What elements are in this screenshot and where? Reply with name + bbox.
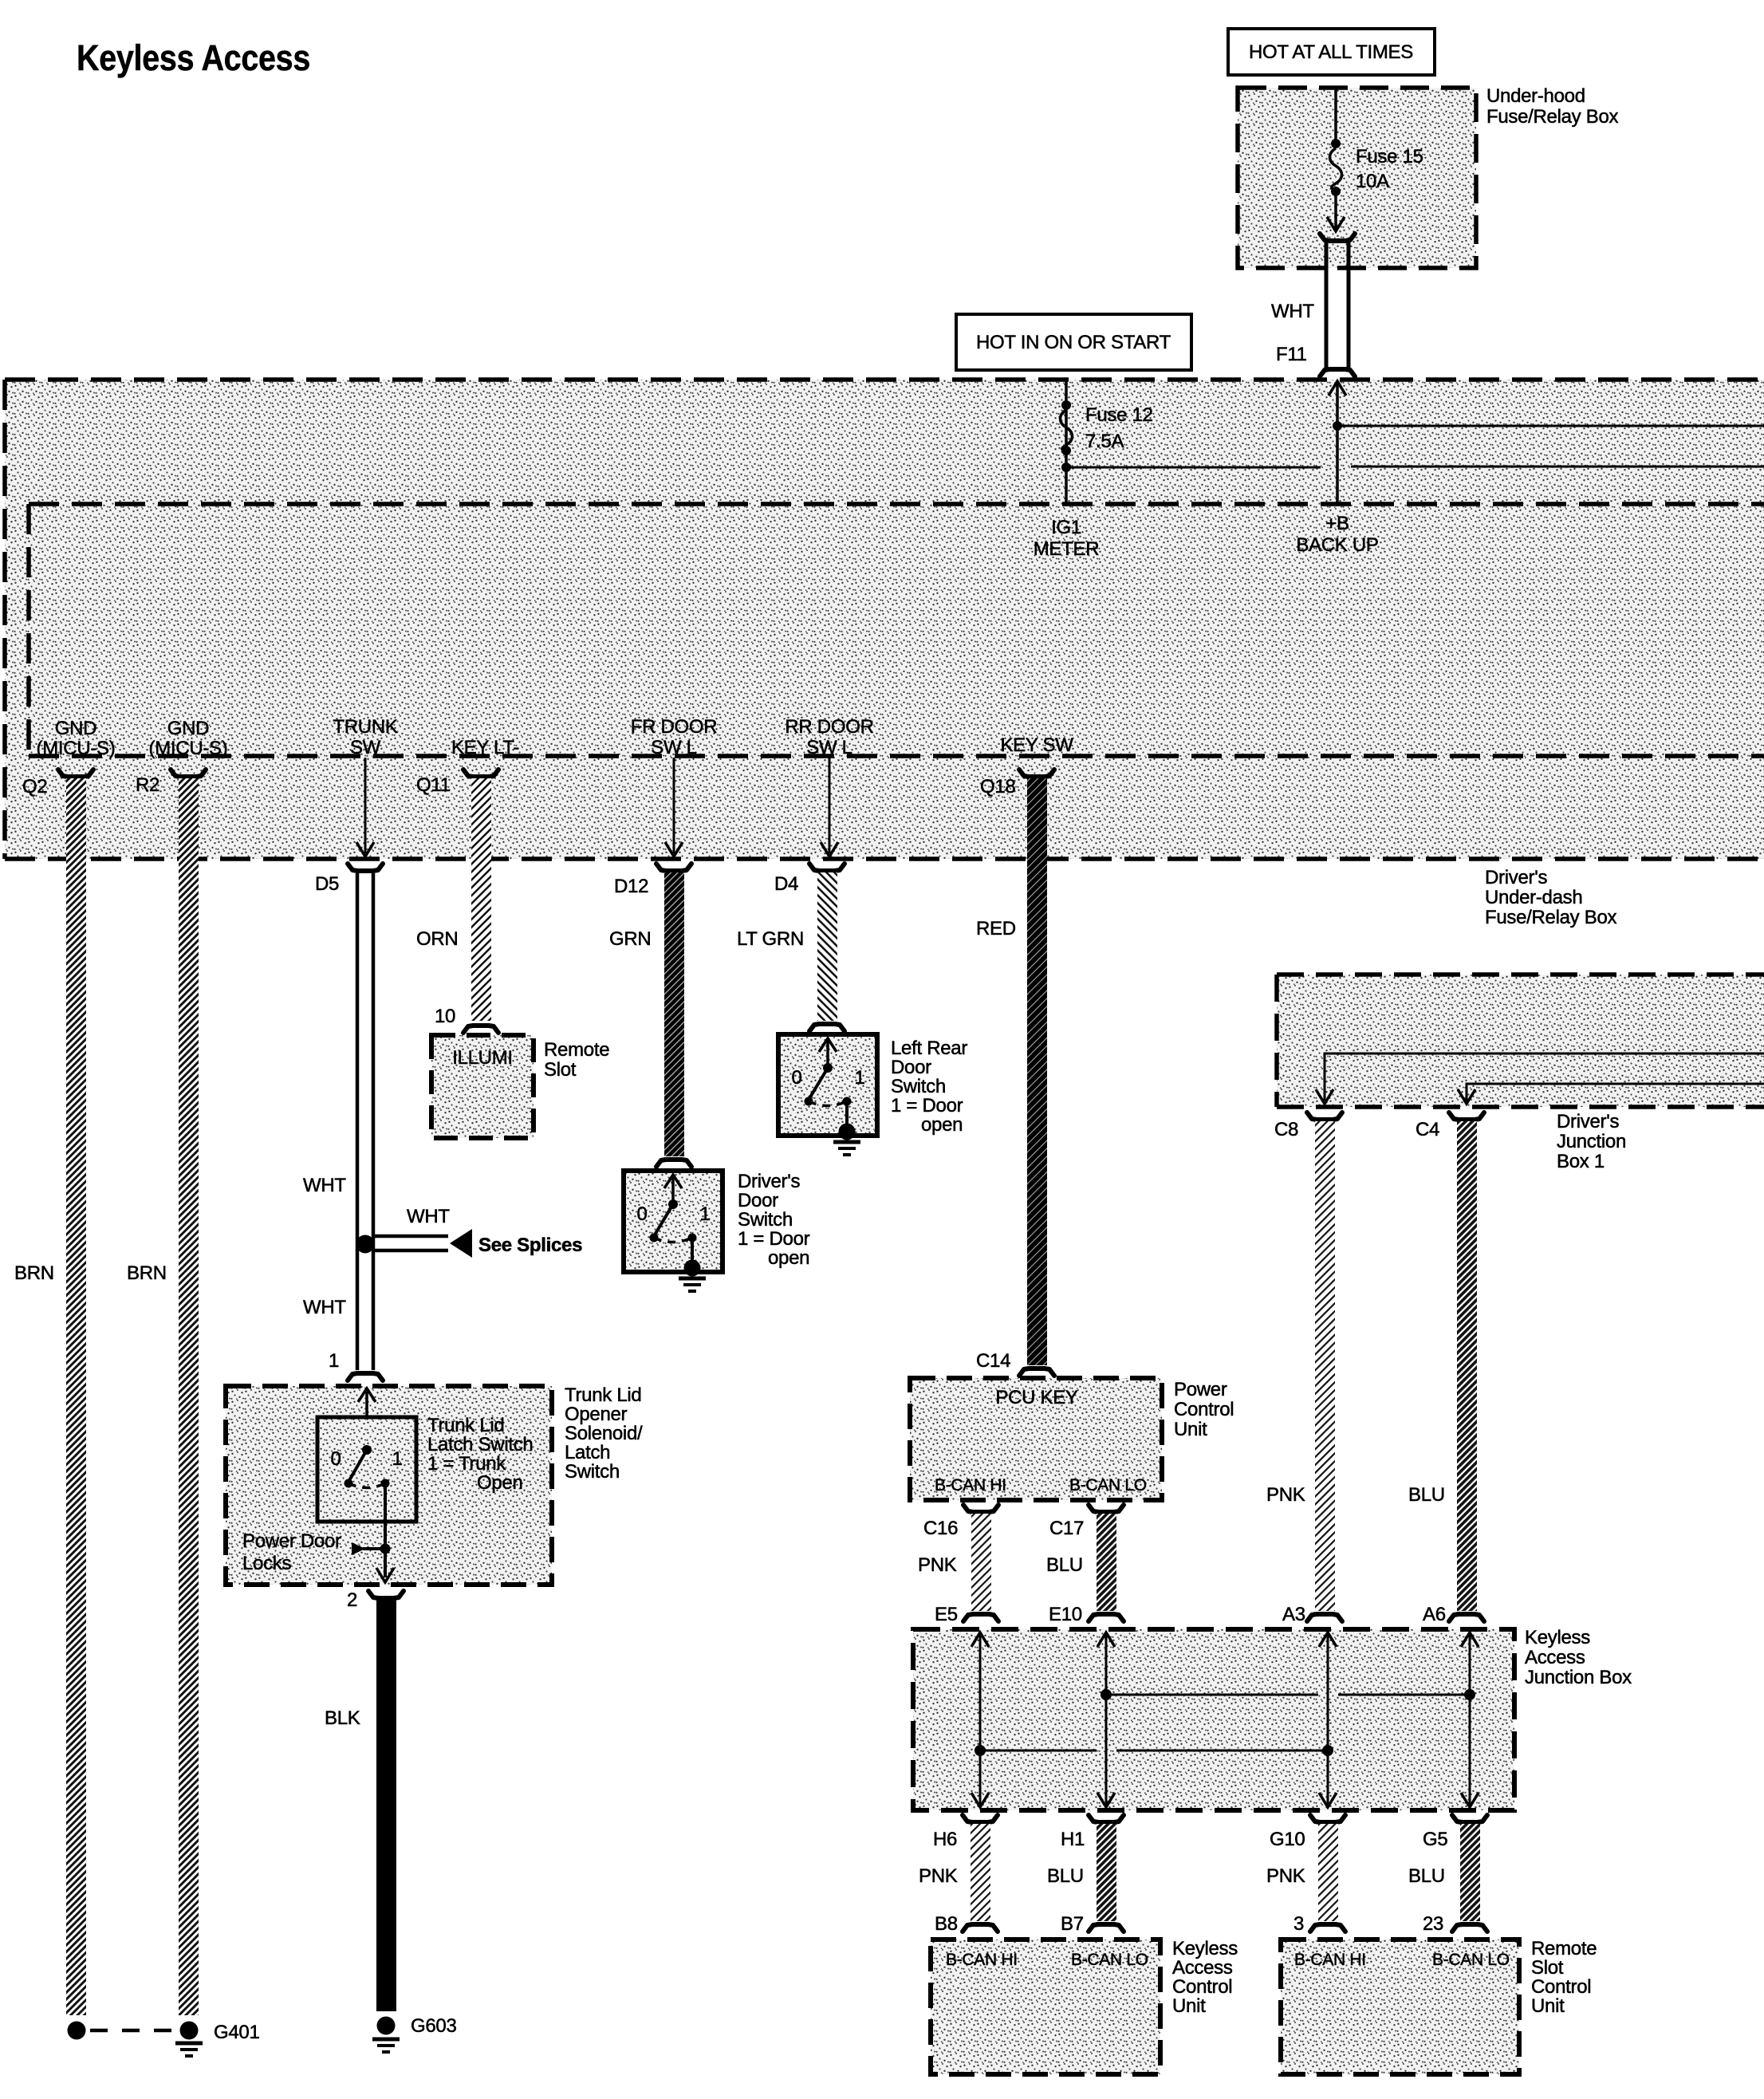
svg-text:RED: RED [976, 918, 1016, 939]
svg-text:WHT: WHT [303, 1175, 346, 1196]
svg-text:Fuse 12: Fuse 12 [1085, 404, 1153, 426]
svg-text:F11: F11 [1276, 344, 1307, 365]
svg-text:C14: C14 [976, 1350, 1010, 1372]
under-hood fuse/relay box [1238, 85, 1619, 268]
fuse 15 (10A) [1327, 88, 1423, 231]
svg-text:Fuse/Relay Box: Fuse/Relay Box [1486, 106, 1619, 128]
svg-text:Driver's: Driver's [1557, 1111, 1619, 1132]
svg-text:TRUNK: TRUNK [333, 716, 397, 738]
svg-text:1: 1 [392, 1448, 402, 1470]
svg-text:B-CAN LO: B-CAN LO [1432, 1951, 1510, 1969]
svg-text:BLK: BLK [325, 1707, 360, 1729]
svg-text:BLU: BLU [1047, 1865, 1084, 1887]
svg-text:Control: Control [1531, 1976, 1591, 1998]
junction box B-CAN HI tie (E5 to A3, hop at E10) [975, 1745, 1333, 1756]
remote slot box [431, 1035, 609, 1138]
svg-text:(MICU-S): (MICU-S) [37, 738, 116, 759]
svg-text:10A: 10A [1356, 171, 1389, 192]
connector D5 [315, 864, 383, 895]
svg-text:Q2: Q2 [22, 776, 47, 797]
svg-text:C17: C17 [1049, 1518, 1084, 1539]
svg-text:1: 1 [329, 1350, 339, 1372]
svg-text:(MICU-S): (MICU-S) [149, 738, 228, 759]
svg-text:B7: B7 [1061, 1913, 1084, 1935]
power door locks arrow [242, 1530, 394, 1582]
svg-text:B-CAN HI: B-CAN HI [946, 1951, 1018, 1969]
svg-text:Slot: Slot [544, 1059, 577, 1081]
connector C16 / wire PNK (PCU to E5) [918, 1505, 998, 1625]
svg-text:RR DOOR: RR DOOR [785, 716, 873, 738]
svg-text:Box 1: Box 1 [1557, 1151, 1605, 1172]
svg-text:0: 0 [330, 1448, 341, 1470]
connector C4 / wire BLU (to A6) [1408, 1113, 1484, 1625]
svg-text:E10: E10 [1049, 1604, 1082, 1625]
svg-text:HOT IN ON OR START: HOT IN ON OR START [976, 332, 1171, 353]
HOT AT ALL TIMES label box [1228, 29, 1435, 75]
power control unit (PCU) [910, 1378, 1234, 1500]
svg-text:Power: Power [1174, 1379, 1227, 1400]
HOT IN ON OR START label box [956, 314, 1191, 370]
svg-text:D4: D4 [774, 873, 798, 895]
svg-text:B8: B8 [935, 1913, 958, 1935]
svg-text:1: 1 [854, 1067, 864, 1089]
node GND (MICU-S) R2 [136, 718, 227, 796]
svg-text:1 = Trunk: 1 = Trunk [427, 1453, 506, 1475]
svg-text:Opener: Opener [565, 1404, 628, 1425]
svg-text:Control: Control [1174, 1399, 1234, 1420]
svg-text:Driver's: Driver's [738, 1171, 800, 1192]
svg-text:Remote: Remote [544, 1039, 609, 1061]
svg-text:PCU KEY: PCU KEY [995, 1387, 1078, 1408]
svg-text:Door: Door [738, 1190, 778, 1211]
wire inside junction box to C8 [1316, 1053, 1764, 1104]
svg-text:3: 3 [1293, 1913, 1304, 1935]
wire ORN (Q11 to remote slot pin 10) [416, 778, 498, 1033]
svg-text:Remote: Remote [1531, 1938, 1597, 1959]
node TRUNK SW [333, 716, 397, 857]
driver's junction box 1 [1277, 975, 1764, 1172]
svg-text:Under-dash: Under-dash [1485, 887, 1582, 908]
svg-text:Access: Access [1172, 1957, 1233, 1979]
svg-text:BACK UP: BACK UP [1296, 534, 1378, 556]
junction box B-CAN LO tie (E10 to A6, hop at A3) [1101, 1689, 1475, 1700]
node IG1 / METER [1034, 517, 1100, 560]
node KEY LT (Q11) [416, 737, 519, 796]
junction box bus E10-H1 [1097, 1632, 1115, 1807]
svg-text:23: 23 [1423, 1913, 1443, 1935]
svg-text:WHT: WHT [1271, 301, 1314, 322]
svg-text:C16: C16 [923, 1518, 958, 1539]
keyless access junction box [913, 1627, 1632, 1810]
svg-text:Slot: Slot [1531, 1957, 1564, 1979]
svg-text:Unit: Unit [1172, 1995, 1206, 2017]
svg-text:G10: G10 [1270, 1829, 1305, 1850]
svg-text:GND: GND [167, 718, 209, 739]
svg-text:Locks: Locks [242, 1553, 291, 1574]
connector H6 / wire PNK (to B8) [919, 1815, 998, 1935]
driver's under-dash fuse/relay box (outer) [5, 380, 1764, 928]
node KEY SW (Q18) [980, 734, 1073, 797]
svg-text:Keyless: Keyless [1525, 1627, 1590, 1648]
svg-text:SW L: SW L [806, 737, 852, 758]
svg-text:Q11: Q11 [416, 774, 451, 796]
svg-text:Switch: Switch [738, 1209, 793, 1231]
svg-text:Trunk Lid: Trunk Lid [565, 1384, 641, 1406]
svg-text:Q18: Q18 [980, 776, 1015, 797]
svg-text:0: 0 [791, 1067, 801, 1089]
svg-text:FR DOOR: FR DOOR [631, 716, 718, 738]
svg-text:D12: D12 [614, 876, 648, 897]
node GND (MICU-S) Q2 [22, 718, 115, 797]
svg-text:G401: G401 [214, 2022, 260, 2043]
wire BRN (R2 to G401) [127, 778, 199, 2015]
svg-text:Junction Box: Junction Box [1525, 1667, 1632, 1688]
svg-text:Driver's: Driver's [1485, 867, 1547, 888]
left rear door switch [778, 1034, 967, 1155]
svg-text:1 = Door: 1 = Door [891, 1095, 963, 1116]
svg-text:Trunk Lid: Trunk Lid [427, 1415, 504, 1436]
svg-text:B-CAN LO: B-CAN LO [1071, 1951, 1148, 1969]
remote slot control unit [1281, 1938, 1597, 2074]
svg-text:Latch Switch: Latch Switch [427, 1434, 533, 1455]
svg-text:IG1: IG1 [1051, 517, 1081, 538]
junction box bus A3-G10 [1319, 1632, 1337, 1807]
svg-text:C8: C8 [1274, 1119, 1298, 1140]
svg-text:Switch: Switch [891, 1076, 946, 1097]
node FR DOOR SW L [631, 716, 718, 857]
svg-text:KEY SW: KEY SW [1000, 734, 1073, 756]
svg-text:A3: A3 [1282, 1604, 1305, 1625]
svg-text:R2: R2 [136, 774, 159, 796]
svg-text:D5: D5 [315, 873, 339, 895]
trunk lid opener solenoid/latch switch box [226, 1384, 643, 1585]
svg-text:Latch: Latch [565, 1442, 610, 1463]
node +B / BACK UP [1296, 381, 1764, 556]
svg-text:Unit: Unit [1174, 1419, 1207, 1440]
svg-text:GND: GND [55, 718, 96, 739]
svg-text:B-CAN HI: B-CAN HI [1294, 1951, 1366, 1969]
svg-text:A6: A6 [1423, 1604, 1446, 1625]
wire RED (Q18 to PCU C14) [976, 778, 1054, 1376]
wire WHT (trunk sw, double line) [303, 873, 383, 1380]
svg-text:ORN: ORN [416, 928, 458, 950]
wire inside junction box to C4 [1458, 1084, 1764, 1104]
svg-text:H1: H1 [1061, 1829, 1085, 1850]
wire: fuse 12 output to right (IG1 feed) [1066, 467, 1321, 469]
svg-text:Under-hood: Under-hood [1486, 85, 1585, 107]
svg-text:+B: +B [1325, 513, 1349, 534]
keyless access control unit [931, 1938, 1238, 2074]
wire LT GRN (D4 to left rear door switch) [737, 872, 845, 1031]
svg-text:Junction: Junction [1557, 1131, 1626, 1152]
svg-text:BLU: BLU [1408, 1865, 1445, 1887]
svg-text:METER: METER [1034, 538, 1100, 560]
svg-text:B-CAN HI: B-CAN HI [935, 1476, 1006, 1495]
svg-text:G5: G5 [1423, 1829, 1447, 1850]
svg-text:SW L: SW L [651, 737, 696, 758]
svg-text:SW: SW [350, 737, 381, 758]
driver's door switch [624, 1171, 810, 1291]
svg-text:LT GRN: LT GRN [737, 928, 804, 950]
svg-text:E5: E5 [935, 1604, 958, 1625]
wire GRN (D12 to driver's door switch) [609, 872, 691, 1167]
wire BRN (Q2 to G401) [14, 778, 86, 2015]
svg-text:ILLUMI: ILLUMI [452, 1047, 513, 1069]
wire: continuation right of +B vertical (hop) [1351, 466, 1764, 468]
svg-text:PNK: PNK [919, 1865, 958, 1887]
svg-text:open: open [768, 1247, 809, 1269]
fuse 12 (7.5A) [1061, 380, 1153, 504]
svg-text:C4: C4 [1416, 1119, 1439, 1140]
connector C8 / wire PNK (to A3) [1266, 1113, 1342, 1625]
connector H1 / wire BLU (to B7) [1047, 1815, 1124, 1935]
junction box bus A6-G5 [1461, 1632, 1479, 1807]
svg-text:1: 1 [699, 1203, 710, 1225]
svg-text:0: 0 [636, 1203, 647, 1225]
svg-text:HOT AT ALL TIMES: HOT AT ALL TIMES [1249, 41, 1413, 63]
svg-text:Keyless: Keyless [1172, 1938, 1238, 1959]
svg-text:Fuse/Relay Box: Fuse/Relay Box [1485, 907, 1617, 928]
svg-text:Fuse 15: Fuse 15 [1356, 146, 1423, 167]
svg-text:open: open [921, 1114, 963, 1136]
svg-text:Solenoid/: Solenoid/ [565, 1423, 643, 1444]
connector D4 [774, 864, 845, 895]
svg-text:Open: Open [477, 1472, 523, 1494]
connector 2 / wire BLK to G603 [325, 1589, 404, 2011]
svg-text:Unit: Unit [1531, 1995, 1565, 2017]
svg-text:GRN: GRN [609, 928, 651, 950]
connector G5 / wire BLU (to 23) [1408, 1815, 1487, 1935]
svg-text:Keyless Access: Keyless Access [77, 37, 310, 78]
splice on WHT wire [356, 1206, 583, 1258]
trunk lid latch switch [317, 1388, 533, 1577]
junction box bus E5-H6 [971, 1632, 989, 1807]
svg-text:Switch: Switch [565, 1461, 620, 1483]
ground G603 [372, 2015, 457, 2052]
svg-text:KEY LT-: KEY LT- [451, 737, 519, 758]
svg-text:PNK: PNK [1266, 1484, 1305, 1506]
svg-text:BRN: BRN [127, 1262, 167, 1284]
svg-text:7.5A: 7.5A [1085, 431, 1124, 452]
svg-text:BLU: BLU [1046, 1554, 1083, 1576]
node RR DOOR SW L [785, 716, 873, 857]
svg-text:WHT: WHT [407, 1206, 450, 1227]
svg-text:PNK: PNK [1266, 1865, 1305, 1887]
svg-text:Control: Control [1172, 1976, 1232, 1998]
connector F11 (WHT wire) [1271, 234, 1355, 376]
svg-text:BRN: BRN [14, 1262, 54, 1284]
connector D12 [614, 864, 691, 897]
svg-text:BLU: BLU [1408, 1484, 1445, 1506]
svg-text:2: 2 [347, 1589, 357, 1611]
svg-text:Power Door: Power Door [242, 1530, 341, 1552]
svg-text:H6: H6 [933, 1829, 957, 1850]
ground G401 with tie to Q2 wire [68, 2022, 260, 2057]
svg-text:PNK: PNK [918, 1554, 957, 1576]
svg-text:1 = Door: 1 = Door [738, 1228, 810, 1250]
connector C17 / wire BLU (PCU to E10) [1046, 1505, 1124, 1625]
svg-text:B-CAN LO: B-CAN LO [1069, 1476, 1147, 1495]
connector G10 / wire PNK (to 3) [1266, 1815, 1345, 1935]
svg-text:Access: Access [1525, 1647, 1585, 1668]
svg-text:10: 10 [435, 1006, 455, 1027]
driver's under-dash fuse/relay box (inner) [29, 504, 1764, 756]
svg-text:WHT: WHT [303, 1297, 346, 1318]
svg-text:G603: G603 [411, 2015, 457, 2037]
svg-text:Left Rear: Left Rear [891, 1038, 967, 1059]
svg-text:Door: Door [891, 1057, 931, 1078]
svg-text:See Splices: See Splices [478, 1235, 582, 1256]
